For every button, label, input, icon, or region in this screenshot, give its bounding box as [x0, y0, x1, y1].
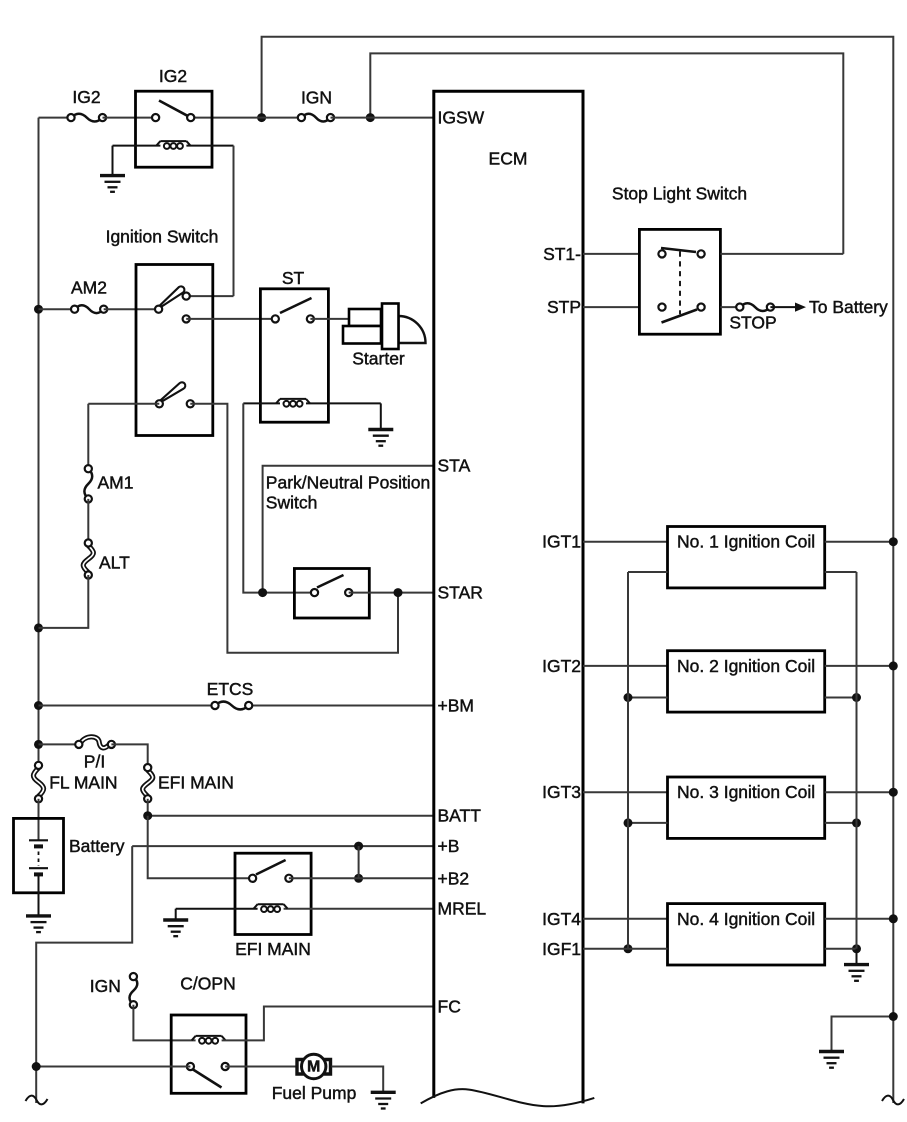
svg-text:Ignition Switch: Ignition Switch — [106, 227, 219, 247]
svg-text:FL MAIN: FL MAIN — [49, 772, 117, 792]
wire +B2 to ECM — [289, 877, 434, 879]
ignition coil 1 box — [668, 527, 825, 588]
label No. 4 Ignition Coil — [677, 909, 815, 929]
pin STP — [547, 297, 581, 317]
wire ST1- ECM to switch — [583, 253, 639, 255]
junction STAR loop — [394, 588, 403, 597]
wire right rail ground branch — [832, 1017, 894, 1052]
wire IG2 relay contact to IGN fuse — [191, 117, 302, 119]
pin IGT4 — [542, 909, 581, 929]
motor fuel pump — [297, 1054, 331, 1078]
wire IG2 fuse to relay contact — [103, 117, 156, 119]
pin BATT — [438, 806, 482, 826]
svg-text:Starter: Starter — [352, 349, 405, 369]
pin STA — [438, 456, 471, 476]
svg-text:IGT1: IGT1 — [542, 532, 581, 552]
wire IGF1 line ECM to coil 4 — [583, 948, 668, 950]
wire STAR to ECM — [349, 592, 434, 594]
pin IGSW — [438, 108, 485, 128]
wire IG2 feed line left rail to IG2 fuse — [39, 117, 72, 119]
wire second feed from IGSW junction to stop light switch — [370, 53, 843, 254]
wire coil 1 lower pins — [628, 571, 857, 573]
wire IG2 relay coil leads — [113, 145, 234, 147]
switch park/neutral box — [294, 569, 369, 619]
wire +BM line — [39, 705, 434, 707]
coil C/OPN relay — [192, 1036, 226, 1044]
switch stop light upper — [658, 248, 704, 258]
wire IGN fuse to C/OPN coil — [133, 1005, 195, 1041]
fusible link EFI MAIN — [143, 764, 234, 802]
fuse AM2 — [71, 278, 107, 314]
wire ignition switch ST contact to ST relay — [186, 318, 275, 320]
svg-text:No. 1 Ignition Coil: No. 1 Ignition Coil — [677, 532, 815, 552]
wire coil 3 lower pins — [628, 822, 857, 824]
wire coil 3 output to right rail — [825, 791, 894, 793]
svg-text:ECM: ECM — [489, 149, 528, 169]
junction coil 4 right rail — [889, 914, 898, 923]
label Ignition Switch — [106, 227, 219, 247]
label To Battery — [809, 297, 888, 317]
wire fuel pump to ground — [332, 1067, 384, 1093]
wire AM2 line — [39, 308, 75, 310]
ignition coil 3 box — [668, 777, 825, 838]
wire P/I to EFI MAIN fuse — [111, 744, 147, 767]
pin IGF1 — [542, 939, 581, 959]
wire BATT line — [148, 815, 434, 817]
pin MREL — [438, 899, 487, 919]
fuse ETCS — [207, 679, 254, 709]
junction +B2 bridge — [354, 874, 363, 883]
svg-text:ETCS: ETCS — [207, 679, 254, 699]
wire ignition ACC contact to park/neutral loop — [190, 404, 398, 653]
junction left rail AM2 — [34, 305, 43, 314]
wire IG2 coil to ignition switch contact — [186, 146, 233, 297]
battery box — [14, 818, 64, 892]
wire ALT to left rail — [39, 575, 89, 628]
junction IGN line to top feed — [257, 113, 266, 122]
pin ST1- — [543, 244, 581, 264]
junction coil 2 right rail — [889, 661, 898, 670]
junction coil 4 IGF rail — [624, 944, 633, 953]
fuse AM1 — [84, 465, 133, 502]
svg-text:STP: STP — [547, 297, 581, 317]
junction coil 4 ground rail — [852, 944, 861, 953]
wire EFI coil to ground — [175, 909, 177, 920]
svg-text:MREL: MREL — [438, 899, 487, 919]
wire +B line — [132, 845, 434, 847]
svg-text:+BM: +BM — [438, 696, 474, 716]
fuse STOP — [729, 303, 776, 332]
svg-text:Battery: Battery — [69, 836, 125, 856]
junction coil 3 IGF rail — [624, 818, 633, 827]
wire BATT to +B2 — [148, 816, 253, 879]
svg-text:IG2: IG2 — [72, 87, 100, 107]
svg-text:IGSW: IGSW — [438, 108, 485, 128]
wire STA from ECM — [263, 466, 434, 593]
svg-text:IGN: IGN — [90, 976, 121, 996]
fuse IGN — [298, 88, 334, 122]
break symbol bottom left rail — [26, 1096, 48, 1105]
junction left rail ALT branch — [34, 623, 43, 632]
junction left rail P/I — [34, 740, 43, 749]
junction right rail ground branch — [889, 1012, 898, 1021]
relay ST box — [260, 268, 328, 422]
wire IGN fuse to ECM pin IGSW — [331, 117, 434, 119]
switch ignition upper contacts — [155, 293, 190, 323]
switch ignition lower blade — [161, 382, 186, 401]
svg-text:STA: STA — [438, 456, 471, 476]
wire +B down to fuel pump feed — [36, 846, 132, 1103]
wire IGF rail — [627, 572, 629, 949]
wire +B/+B2 bridge — [358, 846, 360, 878]
fusible link FL MAIN — [33, 762, 117, 803]
junction coil 3 right rail — [889, 788, 898, 797]
switch stop light dashes — [679, 252, 681, 315]
svg-text:To Battery: To Battery — [809, 297, 888, 317]
label Battery — [69, 836, 125, 856]
relay C/OPN switch — [187, 1063, 229, 1088]
pin +B — [438, 836, 460, 856]
svg-text:ALT: ALT — [99, 553, 130, 573]
svg-text:Park/Neutral Position: Park/Neutral Position — [266, 473, 430, 493]
ECM bottom wave — [421, 1089, 595, 1106]
svg-text:ST: ST — [282, 268, 305, 288]
wire EFI MAIN fuse to BATT line — [147, 799, 149, 816]
fuse IG2 — [67, 87, 106, 122]
wire AM1 to ALT — [87, 499, 89, 543]
ground IG2 relay — [100, 176, 125, 192]
svg-text:FC: FC — [438, 997, 461, 1017]
wire MREL coil leads — [176, 908, 434, 910]
wire AM2 fuse to pivot — [104, 308, 159, 310]
fusible link ALT — [83, 539, 130, 578]
ignition coil 2 box — [668, 651, 825, 712]
svg-text:No. 2 Ignition Coil: No. 2 Ignition Coil — [677, 656, 815, 676]
switch stop light box — [639, 229, 720, 334]
pin +B2 — [438, 868, 470, 888]
wire ST coil to ground — [380, 403, 382, 429]
wire coil ground rail — [856, 572, 858, 965]
wire coil 4 right lower pin — [825, 948, 857, 950]
wire IGT3 ECM to coil — [583, 791, 668, 793]
ignition coil 4 box — [668, 904, 825, 965]
relay EFI MAIN switch — [249, 860, 293, 882]
wire ignition lower pivot to AM1 — [88, 404, 159, 469]
junction coil 1 right rail — [889, 537, 898, 546]
wire STP ECM to switch — [583, 306, 639, 308]
wire coil 2 lower pins — [628, 697, 857, 699]
label No. 2 Ignition Coil — [677, 656, 815, 676]
wire coil 4 output to right rail — [825, 918, 894, 920]
svg-text:Switch: Switch — [266, 493, 318, 513]
svg-text:ST1-: ST1- — [543, 244, 581, 264]
svg-text:IGF1: IGF1 — [542, 939, 581, 959]
wire ST coil to STAR line — [243, 403, 314, 592]
junction coil 2 ground rail — [852, 693, 861, 702]
wire ST relay to starter — [310, 318, 348, 320]
svg-text:Fuel Pump: Fuel Pump — [272, 1083, 357, 1103]
pin IGT3 — [542, 782, 581, 802]
ground ST relay — [368, 430, 393, 446]
svg-text:Stop Light Switch: Stop Light Switch — [612, 184, 747, 204]
svg-text:AM2: AM2 — [71, 278, 107, 298]
label C/OPN — [180, 974, 235, 994]
relay EFI MAIN box — [235, 853, 311, 934]
wire FL MAIN to battery — [38, 799, 40, 841]
label No. 1 Ignition Coil — [677, 532, 815, 552]
svg-text:+B: +B — [438, 836, 460, 856]
ground fuel pump — [371, 1092, 396, 1108]
junction STA on STAR line — [258, 588, 267, 597]
junction +B bridge — [354, 842, 363, 851]
switch stop light lower — [658, 304, 704, 323]
wire C/OPN coil to FC — [222, 1007, 434, 1041]
wire coil 1 output to right rail — [825, 541, 894, 543]
ground ignition coils — [844, 965, 869, 981]
svg-text:M: M — [307, 1059, 320, 1076]
svg-text:P/I: P/I — [84, 752, 105, 772]
switch ignition box — [136, 265, 213, 436]
pin IGT2 — [542, 656, 581, 676]
wire STP to STOP fuse — [720, 306, 739, 308]
junction BATT — [143, 811, 152, 820]
svg-text:EFI MAIN: EFI MAIN — [235, 939, 311, 959]
wire IGT1 ECM to coil — [583, 541, 668, 543]
coil ST relay — [276, 399, 310, 407]
svg-text:No. 3 Ignition Coil: No. 3 Ignition Coil — [677, 782, 815, 802]
svg-text:IGT3: IGT3 — [542, 782, 581, 802]
relay IG2 switch — [152, 101, 194, 122]
fuse IGN vertical — [90, 973, 138, 1008]
wire left rail — [38, 118, 40, 766]
wire IGT2 ECM to coil — [583, 665, 668, 667]
label ECM — [489, 149, 528, 169]
svg-text:STAR: STAR — [438, 583, 483, 603]
relay C/OPN box — [171, 1015, 246, 1093]
coil IG2 relay — [156, 141, 190, 149]
wire ST1- to feed — [720, 253, 843, 255]
starter symbol — [343, 304, 426, 350]
pin +BM — [438, 696, 474, 716]
battery plates — [29, 840, 48, 916]
junction coil 2 IGF rail — [624, 693, 633, 702]
wire top feed from IGN junction to right rail — [262, 37, 894, 1103]
svg-text:IGT4: IGT4 — [542, 909, 581, 929]
wire STOP fuse to battery arrow — [770, 303, 806, 312]
svg-text:No. 4 Ignition Coil: No. 4 Ignition Coil — [677, 909, 815, 929]
switch park/neutral contacts — [311, 575, 352, 596]
switch ignition upper blade — [160, 286, 185, 307]
relay ST switch — [272, 298, 314, 323]
wire P/I branch — [39, 743, 79, 745]
ground EFI MAIN relay — [163, 920, 188, 936]
fusible link P/I — [75, 737, 115, 772]
junction fuel pump feed — [32, 1062, 41, 1071]
ECM box — [434, 91, 583, 1103]
junction left rail +BM — [34, 701, 43, 710]
svg-text:STOP: STOP — [729, 313, 776, 333]
wire fuel pump feed — [36, 1066, 190, 1068]
svg-text:EFI MAIN: EFI MAIN — [158, 772, 234, 792]
svg-text:+B2: +B2 — [438, 868, 470, 888]
pin STAR — [438, 583, 483, 603]
label Fuel Pump — [272, 1083, 357, 1103]
svg-text:C/OPN: C/OPN — [180, 974, 235, 994]
wire IGT4 ECM to coil — [583, 918, 668, 920]
svg-text:IGT2: IGT2 — [542, 656, 581, 676]
pin IGT1 — [542, 532, 581, 552]
wire ST coil leads — [243, 402, 380, 404]
wire coil 2 output to right rail — [825, 665, 894, 667]
svg-text:IGN: IGN — [301, 88, 332, 108]
switch ignition lower contacts — [156, 400, 194, 407]
junction coil 3 ground rail — [852, 818, 861, 827]
relay IG2 box — [136, 66, 213, 167]
coil EFI MAIN relay — [254, 904, 288, 912]
ground right rail — [819, 1052, 844, 1068]
label EFI MAIN relay — [235, 939, 311, 959]
ground battery — [26, 916, 51, 932]
wire IG2 coil to ground — [112, 146, 114, 176]
svg-text:BATT: BATT — [438, 806, 482, 826]
break symbol right rail — [882, 1096, 904, 1105]
label Stop Light Switch — [612, 184, 747, 204]
label No. 3 Ignition Coil — [677, 782, 815, 802]
wire C/OPN to fuel pump — [225, 1066, 296, 1068]
label Starter — [352, 349, 405, 369]
junction IGSW line to second feed — [366, 113, 375, 122]
pin FC — [438, 997, 461, 1017]
svg-text:AM1: AM1 — [98, 473, 134, 493]
svg-text:IG2: IG2 — [159, 66, 187, 86]
label Park/Neutral Position Switch — [266, 473, 430, 513]
